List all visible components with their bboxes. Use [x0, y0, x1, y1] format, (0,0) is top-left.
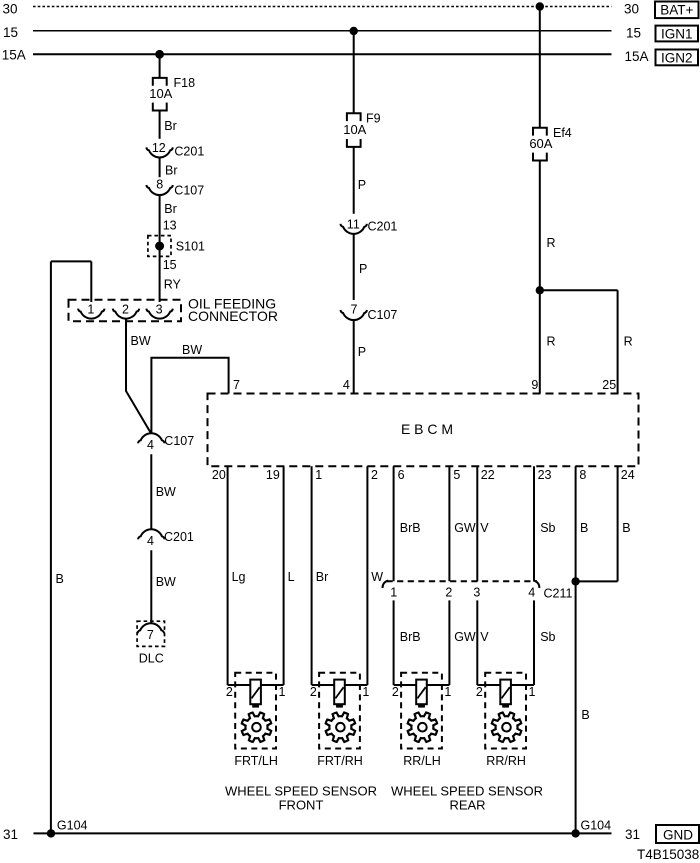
- ground bus 31 line: [34, 832, 612, 834]
- EBCM pin 2 label: [371, 468, 378, 482]
- bus 31 right label: [625, 827, 640, 842]
- svg-text:C107: C107: [174, 183, 204, 197]
- left B wire down to ground: [50, 261, 52, 833]
- wire F9 to C201-11: [353, 147, 355, 214]
- wire C211-2 to RR/LH: [448, 600, 450, 685]
- svg-text:5: 5: [453, 468, 460, 482]
- bus 15 left label: [3, 25, 18, 40]
- sensor RR/LH pin 1: [444, 685, 451, 699]
- svg-text:9: 9: [531, 378, 538, 392]
- EBCM pin 23 label: [538, 468, 552, 482]
- EBCM pin 5 label: [453, 468, 460, 482]
- svg-text:Ef4: Ef4: [553, 126, 572, 140]
- svg-text:IGN2: IGN2: [661, 50, 693, 65]
- pin 15 label: [163, 258, 177, 272]
- EBCM pin 20 label: [212, 468, 226, 482]
- connector C107 pin 8: [146, 178, 204, 198]
- svg-text:1: 1: [529, 685, 536, 699]
- connector C107 pin 7: [341, 302, 398, 322]
- bus 31 left label: [3, 827, 18, 842]
- bus 15 line: [33, 30, 612, 32]
- svg-text:3: 3: [473, 585, 480, 599]
- svg-text:BW: BW: [182, 343, 202, 357]
- fuse F18: [149, 76, 195, 110]
- svg-text:FRT/LH: FRT/LH: [234, 754, 278, 768]
- C211 pin 4: [528, 585, 535, 599]
- svg-text:1: 1: [87, 302, 94, 316]
- svg-text:B: B: [56, 572, 64, 586]
- svg-text:15: 15: [163, 258, 177, 272]
- svg-text:C201: C201: [368, 220, 398, 234]
- svg-text:2: 2: [476, 685, 483, 699]
- EBCM pin 25 label: [602, 378, 616, 392]
- IGN1 box: [656, 26, 699, 42]
- sensor RR/LH coil element: [416, 680, 427, 708]
- sensor RR/RH coil element: [500, 680, 511, 708]
- BAT+ box: [655, 2, 699, 19]
- junction dot R branch: [536, 286, 544, 294]
- wire sensor FRT/LH left horizontal: [228, 684, 251, 686]
- svg-text:2: 2: [122, 302, 129, 316]
- svg-text:WHEEL SPEED SENSOR: WHEEL SPEED SENSOR: [225, 784, 377, 799]
- sensor FRT/RH pin 1: [362, 685, 369, 699]
- wire color BW: [131, 334, 151, 348]
- svg-text:25: 25: [602, 378, 616, 392]
- svg-text:F9: F9: [366, 111, 381, 125]
- wire corner to left B wire: [51, 260, 91, 262]
- svg-text:R: R: [547, 335, 556, 349]
- drawing number T4B15038: [637, 847, 699, 862]
- wire color BW: [156, 575, 176, 589]
- svg-text:3: 3: [156, 302, 163, 316]
- junction dot on 15: [350, 27, 358, 35]
- sensor FRT/RH label: [317, 754, 363, 768]
- svg-text:DLC: DLC: [139, 652, 164, 666]
- oil connector pin 3: [146, 302, 172, 318]
- oil connector pin 1: [78, 302, 104, 318]
- svg-text:2: 2: [392, 685, 399, 699]
- svg-text:15A: 15A: [2, 48, 26, 63]
- svg-text:R: R: [624, 335, 633, 349]
- svg-text:V: V: [480, 521, 489, 535]
- svg-text:S101: S101: [176, 239, 205, 253]
- EBCM pin 7 label: [233, 378, 240, 392]
- svg-text:F18: F18: [174, 76, 196, 90]
- svg-text:31: 31: [3, 827, 18, 842]
- splice S101: [148, 236, 205, 257]
- wire pin23 to C211: [533, 466, 535, 581]
- bus 30 line: [33, 6, 612, 8]
- svg-text:6: 6: [398, 468, 405, 482]
- svg-text:BrB: BrB: [400, 521, 421, 535]
- EBCM pin 4 label: [343, 378, 350, 392]
- connector C211 line: [383, 581, 573, 601]
- wire color Sb: [540, 521, 555, 535]
- wire Ef4 down: [539, 161, 541, 291]
- connector C107 pin 4: [138, 433, 194, 452]
- svg-text:T4B15038: T4B15038: [637, 847, 699, 862]
- svg-text:19: 19: [266, 468, 280, 482]
- svg-text:V: V: [480, 630, 489, 644]
- wire sensor RR/RH right horizontal: [511, 684, 534, 686]
- wire color RY: [164, 278, 182, 292]
- svg-text:23: 23: [538, 468, 552, 482]
- wire color Br: [316, 570, 329, 584]
- svg-text:Br: Br: [164, 202, 177, 216]
- oil feeding connector box: [69, 300, 182, 322]
- svg-text:4: 4: [147, 438, 154, 452]
- C211 pin 2: [445, 585, 452, 599]
- wire R to EBCM pin 9: [539, 290, 541, 393]
- wire sensor FRT/LH right horizontal: [261, 684, 284, 686]
- caption wheel speed sensor front: [225, 784, 377, 813]
- svg-text:1: 1: [279, 685, 286, 699]
- sensor RR/RH pin 2: [476, 685, 483, 699]
- svg-text:2: 2: [371, 468, 378, 482]
- bus 30 right label: [624, 2, 639, 17]
- junction dot B wires: [571, 577, 579, 585]
- svg-text:RY: RY: [164, 278, 182, 292]
- svg-text:BAT+: BAT+: [660, 2, 693, 17]
- EBCM pin 1 label: [315, 468, 322, 482]
- junction dot on 15A: [155, 50, 164, 59]
- sensor FRT/RH coil element: [334, 680, 345, 708]
- wire color GW: [454, 521, 476, 535]
- sensor RR/RH pin 1: [529, 685, 536, 699]
- svg-text:1: 1: [315, 468, 322, 482]
- wire color BW branch: [182, 343, 202, 357]
- fuse Ef4: [529, 126, 571, 161]
- caption wheel speed sensor rear: [391, 784, 543, 813]
- wire sensor FRT/RH right horizontal: [345, 684, 368, 686]
- sensor RR/RH label: [486, 754, 526, 768]
- sensor RR/LH label: [403, 754, 441, 768]
- ground G104 right label: [581, 819, 612, 833]
- svg-text:FRT/RH: FRT/RH: [317, 754, 363, 768]
- wire oil pin1 up: [90, 261, 92, 302]
- wire color P: [358, 178, 366, 192]
- wire color R right: [624, 335, 633, 349]
- EBCM module box: [208, 394, 639, 467]
- svg-text:C211: C211: [544, 587, 573, 601]
- wire pin22 to C211: [476, 466, 478, 581]
- wire color Sb: [540, 630, 555, 644]
- svg-text:C107: C107: [368, 308, 398, 322]
- svg-text:10A: 10A: [149, 86, 172, 101]
- svg-text:Lg: Lg: [232, 570, 246, 584]
- wire color W: [371, 570, 383, 584]
- svg-text:8: 8: [156, 178, 163, 192]
- wire 15A to F18: [159, 54, 161, 77]
- sensor RR/RH tone wheel gear: [492, 713, 522, 742]
- wire B join horizontal: [576, 580, 618, 582]
- wire color Lg: [232, 570, 246, 584]
- svg-text:15A: 15A: [625, 49, 649, 64]
- EBCM pin 9 label: [531, 378, 538, 392]
- svg-text:15: 15: [626, 26, 641, 41]
- svg-text:G104: G104: [581, 819, 612, 833]
- wire color BrB: [400, 521, 421, 535]
- svg-text:E B C M: E B C M: [401, 421, 453, 437]
- svg-text:7: 7: [351, 302, 358, 316]
- wire R to EBCM pin 25: [617, 290, 619, 393]
- svg-text:B: B: [622, 521, 630, 535]
- sensor FRT/LH pin 2: [226, 685, 233, 699]
- C211 pin 1: [390, 585, 397, 599]
- wire color L: [288, 570, 295, 584]
- svg-text:BrB: BrB: [400, 630, 421, 644]
- EBCM pin 19 label: [266, 468, 280, 482]
- bus 15 right label: [626, 26, 641, 41]
- svg-text:R: R: [547, 236, 556, 250]
- DLC pin 7: [138, 623, 164, 642]
- wire C107-7 to EBCM pin 4: [353, 320, 355, 393]
- junction dot on 30: [536, 2, 544, 10]
- svg-text:CONNECTOR: CONNECTOR: [188, 308, 278, 324]
- sensor FRT/LH label: [234, 754, 278, 768]
- wire color B: [581, 708, 589, 722]
- wire pin8 B down to ground: [575, 466, 577, 833]
- svg-text:30: 30: [624, 2, 639, 17]
- wire C201-4 to DLC: [150, 550, 152, 623]
- svg-text:C107: C107: [164, 434, 194, 448]
- svg-text:10A: 10A: [343, 122, 366, 137]
- wire C211-4 to RR/RH: [533, 600, 535, 685]
- svg-text:Sb: Sb: [540, 630, 555, 644]
- DLC label: [139, 652, 164, 666]
- wire color BW: [156, 485, 176, 499]
- svg-text:Br: Br: [164, 119, 177, 133]
- junction dot G104 left: [47, 829, 55, 837]
- svg-text:WHEEL SPEED SENSOR: WHEEL SPEED SENSOR: [391, 784, 543, 799]
- svg-text:2: 2: [226, 685, 233, 699]
- svg-text:L: L: [288, 570, 295, 584]
- svg-text:P: P: [358, 178, 366, 192]
- svg-text:30: 30: [3, 2, 18, 17]
- wire sensor RR/LH right horizontal: [427, 684, 450, 686]
- svg-text:31: 31: [625, 827, 640, 842]
- wire color B left: [56, 572, 64, 586]
- svg-text:7: 7: [233, 378, 240, 392]
- svg-text:C201: C201: [164, 530, 194, 544]
- wheel speed sensor FRT/RH assembly box: [319, 673, 360, 749]
- wire color R: [547, 236, 556, 250]
- svg-text:7: 7: [147, 628, 154, 642]
- svg-text:60A: 60A: [529, 136, 552, 151]
- svg-text:12: 12: [152, 141, 166, 155]
- wire color V: [480, 630, 489, 644]
- svg-text:IGN1: IGN1: [661, 26, 693, 41]
- svg-text:24: 24: [621, 468, 635, 482]
- connector C201 pin 11: [341, 217, 398, 233]
- svg-text:8: 8: [579, 468, 586, 482]
- svg-text:20: 20: [212, 468, 226, 482]
- svg-text:P: P: [359, 262, 367, 276]
- svg-text:BW: BW: [156, 485, 176, 499]
- svg-text:REAR: REAR: [449, 798, 485, 813]
- svg-text:GW: GW: [454, 630, 476, 644]
- connector C201 pin 4: [138, 529, 194, 548]
- wire oil pin2 down: [126, 319, 151, 434]
- sensor RR/LH pin 2: [392, 685, 399, 699]
- svg-text:B: B: [581, 708, 589, 722]
- wire pin6 to C211: [393, 466, 395, 581]
- svg-text:1: 1: [362, 685, 369, 699]
- EBCM pin 8 label: [579, 468, 586, 482]
- fuse F9: [343, 111, 380, 146]
- wire pin1 to FRT/RH: [311, 466, 313, 685]
- wire C107-4 to C201-4: [150, 454, 152, 529]
- svg-text:W: W: [371, 570, 383, 584]
- wire color Br: [164, 202, 177, 216]
- sensor RR/LH tone wheel gear: [408, 713, 437, 742]
- wire color Br: [165, 163, 178, 177]
- wire R branch horizontal: [540, 289, 618, 291]
- oil feeding connector label: [188, 296, 278, 324]
- bus 15A right label: [625, 49, 649, 64]
- wire pin2 to FRT/RH: [366, 466, 368, 685]
- wire sensor RR/LH left horizontal: [394, 684, 417, 686]
- svg-text:Br: Br: [165, 163, 178, 177]
- wire color Br: [164, 119, 177, 133]
- svg-text:RR/LH: RR/LH: [403, 754, 441, 768]
- wire sensor RR/RH left horizontal: [477, 684, 500, 686]
- wire 30 to Ef4: [539, 7, 541, 128]
- oil connector pin 2: [113, 302, 139, 318]
- bus 30 left label: [3, 2, 18, 17]
- wire pin5 to C211: [448, 466, 450, 581]
- sensor FRT/LH tone wheel gear: [242, 713, 271, 742]
- svg-text:RR/RH: RR/RH: [486, 754, 526, 768]
- wheel speed sensor RR/RH assembly box: [485, 673, 526, 749]
- wire color R left: [547, 335, 556, 349]
- wire color B: [580, 521, 588, 535]
- sensor FRT/RH tone wheel gear: [326, 713, 355, 742]
- svg-text:15: 15: [3, 25, 18, 40]
- svg-text:G104: G104: [57, 819, 88, 833]
- sensor FRT/LH pin 1: [279, 685, 286, 699]
- wire C201 to C107: [159, 158, 161, 178]
- wire color V: [480, 521, 489, 535]
- svg-text:GW: GW: [454, 521, 476, 535]
- svg-text:P: P: [358, 345, 366, 359]
- wire color BrB: [400, 630, 421, 644]
- EBCM pin 6 label: [398, 468, 405, 482]
- wire pin19 to FRT/LH: [283, 466, 285, 685]
- svg-text:Sb: Sb: [540, 521, 555, 535]
- svg-text:FRONT: FRONT: [279, 798, 324, 813]
- EBCM pin 24 label: [621, 468, 635, 482]
- svg-text:4: 4: [343, 378, 350, 392]
- wheel speed sensor FRT/LH assembly box: [235, 673, 276, 749]
- pin 13 label: [163, 219, 177, 233]
- wire pin20 to FRT/LH: [227, 466, 229, 685]
- IGN2 box: [656, 50, 699, 66]
- svg-text:11: 11: [347, 217, 360, 231]
- C211 pin 3: [473, 585, 480, 599]
- svg-text:BW: BW: [131, 334, 151, 348]
- wire color GW: [454, 630, 476, 644]
- wheel speed sensor RR/LH assembly box: [401, 673, 442, 749]
- svg-text:22: 22: [481, 468, 495, 482]
- sensor FRT/RH pin 2: [310, 685, 317, 699]
- svg-text:2: 2: [445, 585, 452, 599]
- wire C211-3 to RR/RH: [476, 600, 478, 685]
- bus 15A left label: [2, 48, 26, 63]
- wire C211-1 to RR/LH: [393, 600, 395, 685]
- EBCM pin 22 label: [481, 468, 495, 482]
- svg-text:GND: GND: [663, 827, 693, 842]
- GND box: [656, 825, 699, 843]
- svg-text:BW: BW: [156, 575, 176, 589]
- bus 15A line: [33, 53, 612, 55]
- svg-text:C201: C201: [174, 145, 204, 159]
- svg-text:B: B: [580, 521, 588, 535]
- svg-text:4: 4: [147, 534, 154, 548]
- DLC connector box: [137, 621, 164, 646]
- svg-text:2: 2: [310, 685, 317, 699]
- svg-text:4: 4: [528, 585, 535, 599]
- wire C201-11 to C107-7: [353, 234, 355, 300]
- svg-text:13: 13: [163, 219, 177, 233]
- wire C107 to S101: [159, 195, 161, 302]
- wire sensor FRT/RH left horizontal: [312, 684, 335, 686]
- wire color P: [359, 262, 367, 276]
- wire 15 to F9: [353, 31, 355, 113]
- svg-text:1: 1: [444, 685, 451, 699]
- wire pin24 B down: [617, 466, 619, 581]
- svg-text:1: 1: [390, 585, 397, 599]
- wire BW horizontal branch: [151, 358, 228, 434]
- wire F18 to C201: [159, 111, 161, 139]
- junction dot G104 right: [571, 829, 579, 837]
- connector C201 pin 12: [146, 141, 204, 159]
- wire color P: [358, 345, 366, 359]
- sensor FRT/LH coil element: [250, 680, 261, 708]
- wire color B: [622, 521, 630, 535]
- ground G104 left label: [57, 819, 88, 833]
- svg-text:Br: Br: [316, 570, 329, 584]
